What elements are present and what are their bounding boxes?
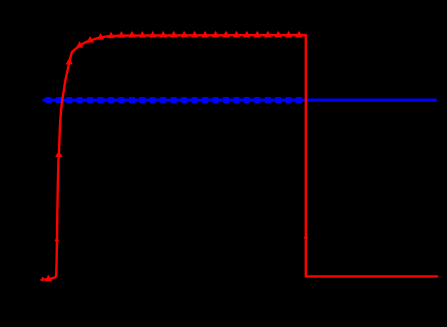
series 1 (red) curve: rise, plateau, fall, bottom tail: [42, 35, 438, 280]
series 1 start dot: [42, 277, 44, 279]
extra marker on falling edge: [304, 234, 308, 239]
series 1 triangle markers: [45, 31, 303, 281]
series 2 left arrowhead: [42, 97, 48, 104]
series 2 (blue) horizontal line: [43, 99, 437, 102]
series 2 square markers: [45, 97, 302, 103]
extra marker on rising edge: [55, 237, 60, 242]
